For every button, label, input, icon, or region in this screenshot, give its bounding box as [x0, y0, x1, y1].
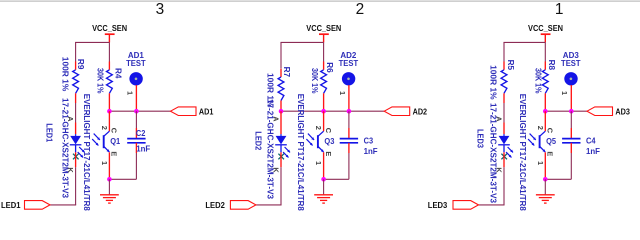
- svg-text:1: 1: [560, 91, 569, 95]
- sheet zone number 1: [555, 1, 564, 18]
- sheet zone number 3: [156, 1, 165, 18]
- svg-text:C4: C4: [586, 137, 596, 146]
- svg-text:EVERLIGHT PT17-21C/L41/TR8: EVERLIGHT PT17-21C/L41/TR8: [518, 94, 527, 211]
- svg-text:30K 1%: 30K 1%: [96, 68, 105, 94]
- capacitor C2 1nF: [127, 111, 150, 179]
- ground: [536, 179, 555, 203]
- svg-text:1: 1: [100, 161, 109, 165]
- port AD2: [384, 107, 427, 117]
- svg-text:VCC_SEN: VCC_SEN: [528, 24, 563, 33]
- phototransistor Q3 EVERLIGHT PT17-21C/L41/TR8: [296, 94, 335, 211]
- svg-text:TEST: TEST: [126, 59, 146, 68]
- junction at test point column: [347, 109, 352, 114]
- svg-text:A: A: [495, 116, 504, 122]
- svg-text:C: C: [110, 128, 119, 134]
- svg-text:30K 1%: 30K 1%: [534, 68, 543, 94]
- pin E of Q1: [110, 151, 119, 156]
- LED LED1 17-21-GHC-XS2T2M-3T-V3: [45, 98, 85, 198]
- pin 2 of Q1: [100, 126, 109, 130]
- svg-text:LED2: LED2: [205, 201, 225, 210]
- capacitor C4 1nF: [562, 111, 600, 179]
- svg-text:TEST: TEST: [339, 59, 359, 68]
- pin C of Q3: [324, 128, 333, 134]
- svg-text:LED3: LED3: [476, 129, 485, 148]
- pin 1 of test point: [338, 91, 347, 95]
- svg-text:AD1: AD1: [199, 107, 214, 116]
- pin 1 of test point: [560, 91, 569, 95]
- svg-text:Q3: Q3: [324, 137, 334, 146]
- pin E of Q3: [324, 151, 333, 156]
- svg-text:A: A: [272, 116, 281, 122]
- LED LED3 17-21-GHC-XS2T2M-3T-V3: [476, 103, 513, 203]
- no-ERC marker on LED cathode: [73, 154, 79, 160]
- test point AD1 TEST: [126, 51, 146, 111]
- power port VCC_SEN (section 1): [92, 24, 127, 42]
- resistor R5 100R 1%: [489, 60, 515, 103]
- svg-text:R6: R6: [325, 62, 334, 73]
- wire LED cathode to LED1 port: [50, 152, 76, 205]
- resistor R4 30K 1%: [96, 62, 123, 112]
- svg-text:2: 2: [100, 126, 109, 130]
- resistor R6 30K 1%: [310, 62, 334, 112]
- junction at collector column: [543, 109, 548, 114]
- svg-text:E: E: [324, 151, 333, 156]
- resistor R7 100R 1%: [266, 67, 292, 112]
- pin K of LED: [66, 167, 75, 173]
- port AD1: [171, 107, 214, 117]
- pin A of LED: [495, 116, 504, 122]
- pin 1 of Q5: [536, 161, 545, 165]
- phototransistor Q1 EVERLIGHT PT17-21C/L41/TR8: [82, 94, 121, 211]
- svg-text:1: 1: [338, 91, 347, 95]
- svg-text:VCC_SEN: VCC_SEN: [92, 24, 127, 33]
- svg-text:1: 1: [536, 161, 545, 165]
- pin A of LED: [66, 116, 75, 122]
- pin 2 of Q3: [314, 126, 323, 130]
- svg-text:C: C: [324, 128, 333, 134]
- wire emitter to capacitor: [109, 178, 136, 180]
- ground: [100, 179, 119, 203]
- svg-text:1: 1: [555, 1, 564, 18]
- svg-text:1nF: 1nF: [586, 147, 600, 156]
- port LED1: [1, 201, 50, 210]
- svg-text:R5: R5: [506, 60, 515, 71]
- svg-text:AD3: AD3: [615, 107, 630, 116]
- no-ERC marker on LED cathode: [501, 154, 507, 160]
- pin K of LED: [494, 167, 503, 173]
- svg-text:2: 2: [356, 1, 365, 18]
- no-ERC marker on LED cathode: [278, 154, 284, 160]
- svg-text:R7: R7: [282, 67, 291, 78]
- svg-text:1: 1: [314, 161, 323, 165]
- port LED3: [428, 201, 479, 210]
- svg-text:K: K: [494, 167, 503, 173]
- port AD3: [587, 107, 630, 117]
- pin 1 of Q3: [314, 161, 323, 165]
- svg-text:E: E: [546, 151, 555, 156]
- svg-text:K: K: [271, 167, 280, 173]
- svg-text:2: 2: [536, 126, 545, 130]
- LED LED2 17-21-GHC-XS2T2M-3T-V3: [254, 99, 290, 199]
- junction at LED anode: [279, 109, 284, 114]
- test point AD3 TEST: [561, 51, 581, 111]
- svg-text:C3: C3: [364, 137, 374, 146]
- svg-text:VCC_SEN: VCC_SEN: [306, 24, 341, 33]
- svg-text:100R 1%: 100R 1%: [489, 65, 498, 100]
- wire R to LED anode: [75, 103, 77, 123]
- svg-text:R4: R4: [114, 68, 123, 79]
- wire VCC_SEN rail: [280, 42, 323, 68]
- wire output rail to AD2: [281, 110, 384, 112]
- svg-text:AD2: AD2: [413, 107, 428, 116]
- pin A of LED: [272, 116, 281, 122]
- ground: [314, 179, 333, 203]
- svg-text:1nF: 1nF: [136, 144, 150, 153]
- pin C of Q1: [110, 128, 119, 134]
- svg-text:1: 1: [125, 91, 134, 95]
- svg-text:3: 3: [156, 1, 165, 18]
- wire output rail to AD1: [109, 110, 170, 112]
- port LED2: [205, 201, 256, 210]
- svg-text:LED1: LED1: [45, 123, 54, 142]
- wire VCC_SEN rail: [503, 42, 545, 61]
- power port VCC_SEN (section 2): [306, 24, 341, 42]
- capacitor C3 1nF: [340, 111, 378, 179]
- junction at emitter: [321, 177, 326, 182]
- junction at test point column: [134, 109, 139, 114]
- resistor R8 30K 1%: [534, 60, 556, 112]
- svg-text:Q1: Q1: [110, 137, 120, 146]
- svg-text:30K 1%: 30K 1%: [310, 68, 319, 94]
- pin 2 of Q5: [536, 126, 545, 130]
- svg-text:LED2: LED2: [254, 131, 263, 150]
- pin 1 of test point: [125, 91, 134, 95]
- junction at emitter: [107, 177, 112, 182]
- svg-text:R9: R9: [76, 59, 85, 70]
- svg-text:100R 1%: 100R 1%: [60, 57, 69, 92]
- svg-text:Q5: Q5: [546, 137, 556, 146]
- wire R to LED anode: [503, 103, 505, 123]
- wire emitter to capacitor: [324, 178, 349, 180]
- svg-text:17-21-GHC-XS2T2M-3T-V3: 17-21-GHC-XS2T2M-3T-V3: [266, 99, 275, 199]
- svg-text:A: A: [66, 116, 75, 122]
- wire LED cathode to LED2 port: [256, 152, 282, 205]
- junction at emitter: [543, 177, 548, 182]
- svg-text:TEST: TEST: [561, 59, 581, 68]
- sheet top border line: [0, 0, 640, 2]
- sheet zone number 2: [356, 1, 365, 18]
- junction at collector column: [107, 109, 112, 114]
- pin E of Q5: [546, 151, 555, 156]
- svg-text:K: K: [66, 167, 75, 173]
- svg-text:C: C: [546, 128, 555, 134]
- junction at test point column: [569, 109, 574, 114]
- svg-text:17-21-GHC-XS2T2M-3T-V3: 17-21-GHC-XS2T2M-3T-V3: [60, 98, 69, 198]
- svg-text:R8: R8: [547, 60, 556, 71]
- junction at collector column: [321, 109, 326, 114]
- phototransistor Q5 EVERLIGHT PT17-21C/L41/TR8: [518, 94, 557, 211]
- wire VCC_SEN rail: [75, 42, 109, 61]
- test point AD2 TEST: [339, 51, 359, 111]
- svg-text:EVERLIGHT PT17-21C/L41/TR8: EVERLIGHT PT17-21C/L41/TR8: [296, 94, 305, 211]
- resistor R9 100R 1%: [60, 57, 85, 103]
- svg-text:2: 2: [314, 126, 323, 130]
- power port VCC_SEN (section 3): [528, 24, 563, 42]
- svg-text:EVERLIGHT PT17-21C/L41/TR8: EVERLIGHT PT17-21C/L41/TR8: [82, 94, 91, 211]
- svg-text:LED3: LED3: [428, 201, 448, 210]
- svg-text:1nF: 1nF: [364, 147, 378, 156]
- wire emitter to capacitor: [545, 178, 571, 180]
- svg-text:C2: C2: [136, 129, 146, 138]
- wire output rail to AD3: [545, 110, 587, 112]
- pin 1 of Q1: [100, 161, 109, 165]
- pin C of Q5: [546, 128, 555, 134]
- svg-text:LED1: LED1: [1, 201, 21, 210]
- svg-text:E: E: [110, 151, 119, 156]
- pin K of LED: [271, 167, 280, 173]
- wire LED cathode to LED3 port: [479, 152, 505, 205]
